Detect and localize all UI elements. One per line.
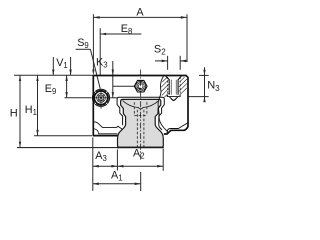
baseline / mounting surface bbox=[17, 147, 119, 149]
label S9 with leader bbox=[76, 37, 101, 89]
top surface extension line bbox=[14, 74, 93, 76]
dimension E9 bbox=[45, 75, 68, 98]
rail centerline (dash-dot) bbox=[140, 70, 142, 160]
dimension H1 bbox=[25, 75, 39, 135]
dimension A1 bbox=[93, 169, 141, 191]
rail (grey profile) bbox=[118, 99, 164, 147]
threaded hole S2 (sectioned) bbox=[166, 76, 181, 100]
dimension A2 bbox=[117, 147, 163, 171]
carriage inner top contour bbox=[117, 97, 164, 99]
rail bottom edge on baseline bbox=[117, 147, 164, 149]
dimension V1 bbox=[52, 57, 72, 75]
rail top dished groove bbox=[123, 101, 159, 109]
dimension E8 bbox=[100, 23, 141, 75]
lube port center extension line bbox=[65, 97, 118, 99]
carriage leg inner profile left bbox=[117, 99, 123, 125]
rail hidden bolt hole (dashed) bbox=[134, 102, 147, 147]
lube fitting hex (center) bbox=[134, 80, 147, 92]
K3 left arrow (on A extension line) bbox=[92, 70, 94, 76]
dimension A3 bbox=[93, 138, 118, 191]
svg-text:A: A bbox=[136, 6, 144, 18]
grease nipple knurl gaps bbox=[95, 91, 108, 104]
carriage seal contour right bbox=[167, 123, 188, 133]
section break line (wavy) bbox=[158, 76, 168, 133]
dimension S2 bbox=[154, 43, 187, 69]
grease nipple S9 (left lube port) bbox=[92, 89, 110, 109]
carriage body outline bbox=[93, 76, 188, 136]
section hatching around S2 hole bbox=[161, 77, 187, 97]
dimension N3 bbox=[188, 67, 220, 102]
carriage foot inner corner left bbox=[93, 129, 117, 134]
hex fitting centerline (horizontal) bbox=[113, 85, 135, 87]
carriage leg inner profile right bbox=[159, 99, 165, 130]
dimension K3 bbox=[96, 56, 114, 98]
carriage seal contour left bbox=[93, 122, 122, 135]
dimension A bbox=[93, 6, 187, 70]
dimension H bbox=[10, 75, 21, 147]
svg-text:H: H bbox=[10, 108, 18, 120]
carriage bottom extension line bbox=[34, 135, 92, 137]
